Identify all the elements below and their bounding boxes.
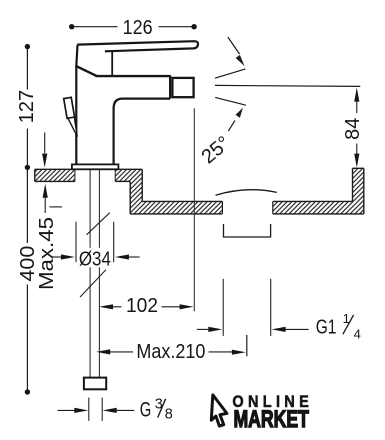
basin rear wall right edge [363, 168, 365, 214]
dia34 right arrow [128, 256, 140, 258]
label dia34 background mask [78, 248, 112, 267]
dia34 lower oblique [80, 270, 106, 297]
upper spray fan line [215, 69, 246, 78]
deck bottom left [35, 180, 75, 182]
basin rear wall top [353, 167, 364, 169]
drain hole right cap [272, 201, 274, 214]
drain hole left cap [221, 201, 223, 214]
faucet left edge [76, 45, 77, 165]
angle leader arrow [228, 120, 235, 130]
deck left cap [34, 169, 36, 181]
g114 right arrow [285, 328, 309, 330]
max45 down arrow [44, 132, 46, 153]
g38 left arrow [58, 409, 77, 411]
deck bottom right [115, 180, 130, 182]
max210 line right [209, 351, 233, 353]
g114 left extent line [222, 279, 224, 336]
svg-text:84: 84 [342, 118, 364, 140]
spout bottom and body right edge [114, 99, 171, 165]
max210 extent line [246, 335, 248, 356]
dim end dot middle [25, 165, 30, 170]
faucet body top [96, 75, 171, 77]
spout end face [169, 75, 171, 98]
svg-text:8: 8 [165, 406, 173, 422]
basin outer step edge [129, 181, 131, 214]
dim 102 left arrow [99, 304, 113, 309]
dim 102 line [112, 306, 181, 308]
basin floor bottom left [130, 213, 222, 215]
svg-text:126: 126 [123, 17, 153, 39]
svg-text:G: G [140, 399, 152, 422]
hatch step section [115, 169, 222, 214]
logo cursor icon [211, 395, 227, 426]
svg-text:127: 127 [16, 90, 38, 123]
svg-text:Max.45: Max.45 [36, 217, 58, 290]
side lever stem [68, 117, 77, 136]
deck hole left edge [74, 169, 76, 181]
dim 102 right arrow [180, 304, 194, 309]
max210 left arrow [110, 351, 134, 353]
basin inner step edge [141, 169, 143, 201]
side lever knob [64, 97, 75, 118]
dim 127-400 vertical line [26, 47, 28, 392]
g38 left tick [88, 398, 90, 421]
faucet lever blade [77, 41, 198, 51]
dia34 left extent line [75, 222, 77, 263]
supply pipe left line [89, 170, 91, 378]
dim end dot top [25, 44, 30, 49]
supply pipe right line [98, 170, 100, 378]
water level line [215, 85, 360, 86]
dim end dot bottom [25, 389, 30, 394]
svg-text:102: 102 [126, 295, 158, 317]
aerator square [172, 78, 193, 97]
svg-text:Ø34: Ø34 [79, 248, 111, 270]
g38 right arrow [116, 409, 135, 411]
hatch left deck [35, 169, 75, 181]
deck hole right edge [114, 169, 116, 181]
basin floor top left [142, 200, 222, 202]
base plate [72, 164, 119, 169]
supply fitting [84, 378, 106, 390]
g114 left arrow [197, 328, 210, 330]
deck top line [35, 168, 142, 170]
svg-text:3: 3 [155, 396, 163, 412]
g114 right extent line [270, 279, 272, 336]
dim 126 end dots [69, 24, 74, 29]
basin floor top right [273, 200, 353, 202]
dia34 upper oblique [87, 213, 110, 235]
svg-text:Max.210: Max.210 [136, 341, 205, 363]
faucet lever front diagonal [76, 66, 97, 76]
drain fitting U [224, 224, 271, 237]
basin bowl arc [216, 190, 277, 196]
lower spray fan line [215, 97, 246, 105]
dim 84 down arrow [356, 144, 358, 155]
basin floor bottom right [273, 213, 364, 215]
hatch right wall section [273, 168, 364, 214]
max210 right arrow [232, 350, 246, 355]
dia34 left arrow [53, 256, 63, 258]
dim 84 up arrow [356, 101, 358, 114]
svg-text:MARKET: MARKET [234, 407, 310, 433]
g38 right tick [101, 398, 103, 421]
spout leader arrow top [228, 37, 240, 54]
basin rear wall left edge [352, 168, 354, 201]
svg-text:G1: G1 [316, 316, 337, 339]
svg-text:4: 4 [354, 326, 361, 341]
max45 dash [50, 206, 63, 208]
dia34 right extent line [113, 222, 115, 263]
faucet lever neck line [111, 52, 113, 76]
dim 126 line [72, 26, 194, 28]
spout extension line [193, 108, 195, 311]
max45 up arrow [44, 198, 46, 214]
